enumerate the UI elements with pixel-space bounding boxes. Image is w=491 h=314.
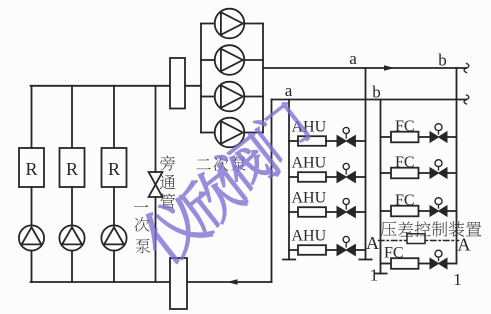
wire: header to secondary pump bus (185, 85, 201, 87)
svg-text:b: b (438, 51, 447, 70)
wire: AHU1 coil to valve (326, 140, 337, 142)
AHU1 two-way valve (solid bowtie with actuator) (337, 136, 355, 147)
wire: stub left pump 3 (201, 96, 215, 98)
wire: stub right pump 3 (244, 96, 263, 98)
wire: stub right pump 4 (244, 132, 263, 134)
chiller R1 box (19, 148, 44, 187)
wire: AHU3 valve outlet (355, 211, 365, 213)
wire: stub right pump 1 (244, 23, 263, 25)
AHU unit 3 coil box (298, 207, 326, 217)
wire: FC right bus (456, 68, 458, 264)
wire: stub left pump 2 (201, 59, 215, 61)
watermark 仪欣阀门 (135, 98, 313, 268)
FC4 two-way valve (solid bowtie with actuator) (430, 258, 447, 268)
flow arrow on supply main (right) (384, 65, 395, 71)
wire: FC2 valve outlet (447, 172, 457, 174)
label 一次泵 (primary pump) (134, 205, 148, 207)
wire: AHU1 inlet (289, 140, 298, 142)
svg-text:FC: FC (384, 245, 404, 262)
label 二次泵 (secondary pump) (196, 159, 210, 169)
FC unit 1 coil box (391, 132, 419, 143)
wire: pump 3 to return line (113, 251, 115, 282)
wire: return drop (271, 100, 273, 283)
primary pump 3 (circle with up triangle) (101, 225, 126, 250)
wire: chiller 2 drop from manifold (71, 86, 73, 148)
break squiggle line 1 (464, 64, 469, 73)
AHU unit 1 coil box (298, 136, 326, 146)
wire: R2 to pump 2 (71, 187, 73, 225)
svg-text:b: b (372, 83, 381, 102)
wire: FC4 inlet (381, 263, 392, 265)
FC unit 3 coil box (391, 206, 419, 217)
FC2 two-way valve (solid bowtie with actuator) (430, 168, 447, 178)
secondary pump 4 (circle with right triangle) (215, 118, 245, 148)
wire: chiller 1 drop from manifold (31, 86, 33, 148)
return header vessel (170, 258, 187, 309)
svg-text:a: a (285, 81, 293, 100)
AHU left bus foot (283, 259, 295, 261)
wire: bypass pipe lower (155, 197, 157, 282)
wire: FC3 inlet (381, 210, 392, 212)
AHU3 two-way valve (solid bowtie with actuator) (337, 207, 355, 218)
wire: pump 2 to return line (71, 251, 73, 282)
wire: stub right pump 2 (244, 59, 263, 61)
svg-text:AHU: AHU (292, 189, 327, 206)
FC unit 2 coil box (391, 168, 419, 179)
wire: AHU2 valve outlet (355, 176, 365, 178)
wire: R1 to pump 1 (31, 187, 33, 225)
AHU2 two-way valve (solid bowtie with actuator) (337, 172, 355, 183)
wire: stub left pump 1 (201, 23, 215, 25)
wire: supply main (line 1) (263, 67, 467, 69)
AHU unit 2 coil box (298, 172, 326, 182)
chiller R3 box (102, 148, 127, 187)
wire: secondary main (line 2) (272, 99, 467, 101)
wire: bottom return line (right of header) (187, 281, 272, 283)
svg-text:a: a (349, 49, 357, 68)
wire: secondary pump right bus (262, 24, 264, 133)
wire: R3 to pump 3 (113, 187, 115, 225)
supply header vessel (170, 58, 185, 109)
AHU right bus foot (359, 259, 371, 261)
wire: AHU1 valve outlet (355, 140, 365, 142)
svg-text:AHU: AHU (292, 227, 327, 244)
wire: pump 1 to return line (31, 251, 33, 282)
AHU4 two-way valve (solid bowtie with actuator) (337, 245, 355, 256)
wire: FC1 valve outlet (447, 136, 457, 138)
FC left bus foot (374, 273, 386, 275)
svg-text:A: A (366, 233, 379, 253)
FC unit 4 coil box (391, 258, 419, 269)
wire: secondary pump left bus (200, 24, 202, 133)
wire: FC2 coil to valve (419, 172, 431, 174)
svg-text:R: R (25, 159, 37, 179)
wire: FC left bus (380, 100, 382, 274)
differential pressure controller box (407, 234, 425, 244)
FC3 two-way valve (solid bowtie with actuator) (430, 206, 447, 216)
wire: FC4 coil to valve (419, 263, 431, 265)
wire: AHU4 coil to valve (326, 249, 337, 251)
svg-text:AHU: AHU (292, 154, 327, 171)
wire: AHU4 valve outlet (355, 249, 365, 251)
wire: FC3 coil to valve (419, 210, 431, 212)
primary pump 1 (circle with up triangle) (19, 225, 44, 250)
wire: FC1 inlet (381, 136, 392, 138)
wire: AHU left bus (288, 100, 290, 260)
wire: AHU3 inlet (289, 211, 298, 213)
AHU unit 4 coil box (298, 245, 326, 255)
chiller R2 box (60, 148, 85, 187)
wire: AHU right bus (365, 68, 367, 260)
svg-text:1: 1 (453, 270, 462, 289)
svg-text:R: R (108, 159, 120, 179)
svg-text:FC: FC (395, 192, 415, 209)
differential pressure tapping line A-A (dash-dot) (379, 240, 459, 242)
secondary pump 3 (circle with right triangle) (215, 82, 245, 112)
primary pump 2 (circle with up triangle) (59, 225, 84, 250)
svg-text:FC: FC (395, 118, 415, 135)
wire: top supply manifold (31, 85, 170, 87)
secondary pump 2 (circle with right triangle) (215, 45, 245, 75)
FC1 two-way valve (solid bowtie with actuator) (430, 132, 447, 142)
wire: chiller 3 drop from manifold (113, 86, 115, 148)
wire: AHU4 inlet (289, 249, 298, 251)
break squiggle line 2 (464, 95, 469, 104)
wire: AHU2 inlet (289, 176, 298, 178)
svg-text:A: A (458, 235, 471, 255)
wire: AHU3 coil to valve (326, 211, 337, 213)
label 压差控制装置 (differential pressure control device) (381, 222, 397, 237)
wire: FC3 valve outlet (447, 210, 457, 212)
wire: stub left pump 4 (201, 132, 215, 134)
wire: FC2 inlet (381, 172, 392, 174)
label 旁通管 (bypass pipe) (160, 155, 175, 170)
secondary pump 1 (circle with right triangle) (215, 9, 245, 39)
wire: FC4 valve outlet (447, 263, 457, 265)
flow arrow on return line (left) (227, 279, 238, 285)
svg-text:1: 1 (370, 266, 379, 285)
wire: bypass pipe upper (155, 86, 157, 172)
svg-text:R: R (66, 159, 78, 179)
wire: AHU2 coil to valve (326, 176, 337, 178)
svg-text:FC: FC (395, 154, 415, 171)
bypass valve (hollow bowtie) (149, 172, 163, 197)
wire: FC1 coil to valve (419, 136, 431, 138)
wire: bottom return line (left) (31, 281, 170, 283)
